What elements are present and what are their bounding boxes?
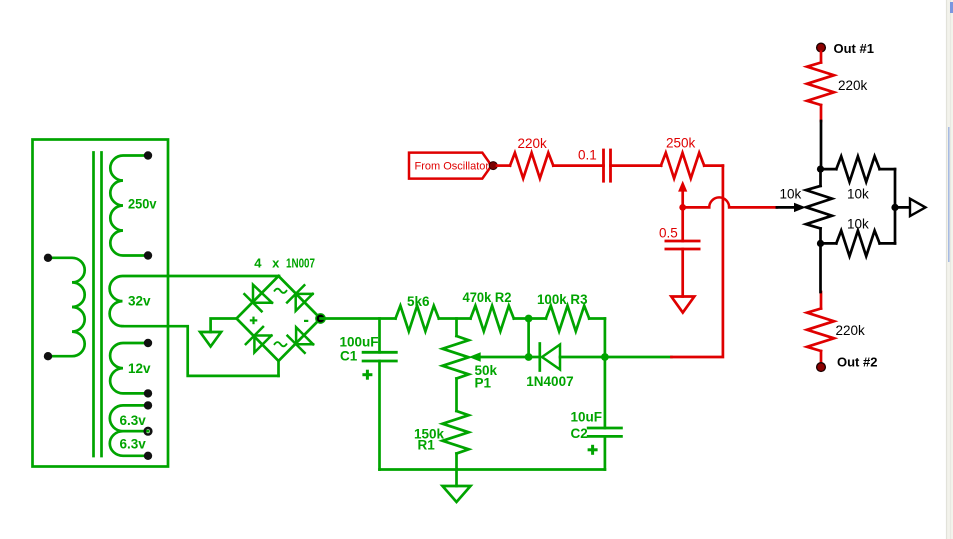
svg-text:5k6: 5k6 [407, 294, 430, 309]
svg-text:Out #2: Out #2 [837, 354, 877, 369]
svg-text:12v: 12v [128, 361, 151, 376]
svg-text:220k: 220k [518, 136, 548, 151]
svg-text:220k: 220k [836, 323, 866, 338]
svg-text:220k: 220k [838, 78, 868, 93]
svg-text:6.3v: 6.3v [120, 413, 147, 428]
svg-text:10k: 10k [847, 217, 869, 232]
svg-text:100k R3: 100k R3 [537, 292, 588, 307]
svg-text:250k: 250k [666, 136, 696, 151]
svg-text:From Oscillator: From Oscillator [415, 161, 490, 173]
svg-text:10k: 10k [780, 187, 802, 202]
svg-text:P1: P1 [475, 376, 492, 391]
svg-text:R1: R1 [418, 438, 436, 453]
svg-text:250v: 250v [128, 197, 157, 212]
svg-text:10uF: 10uF [571, 410, 603, 425]
svg-text:Out #1: Out #1 [834, 41, 874, 56]
svg-text:C2: C2 [571, 426, 588, 441]
svg-text:C1: C1 [340, 349, 358, 364]
svg-text:0.5: 0.5 [659, 226, 678, 241]
svg-text:x: x [272, 256, 280, 271]
svg-text:470k R2: 470k R2 [463, 290, 512, 305]
svg-text:0.1: 0.1 [578, 148, 597, 163]
svg-text:32v: 32v [128, 293, 151, 308]
svg-text:1N007: 1N007 [286, 256, 315, 271]
svg-text:6.3v: 6.3v [120, 437, 147, 452]
svg-text:1N4007: 1N4007 [526, 374, 573, 389]
svg-text:4: 4 [254, 256, 262, 271]
svg-text:100uF: 100uF [340, 335, 379, 350]
svg-text:10k: 10k [847, 187, 869, 202]
